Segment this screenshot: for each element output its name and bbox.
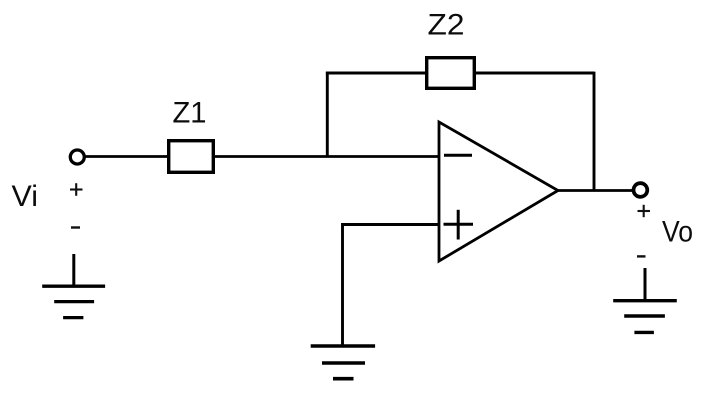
impedance Z1 (169, 141, 214, 173)
op-amp inverting input marker (444, 154, 472, 157)
svg-text:Z1: Z1 (173, 97, 207, 130)
Vo polarity - (637, 255, 646, 257)
ground GND3 (613, 268, 677, 332)
wire Z1 to op-amp inverting input (215, 155, 439, 158)
wire feedback right vertical (593, 72, 596, 191)
Vi polarity - (71, 226, 80, 228)
impedance Z2 (427, 58, 475, 89)
wire non-inverting input to ground (343, 225, 440, 347)
op-amp non-inverting input marker + (444, 210, 474, 240)
ground GND1 (42, 254, 105, 318)
wire feedback top (326, 72, 594, 75)
Vo polarity + (638, 205, 651, 217)
ground GND2 (311, 346, 375, 379)
wire feedback left vertical (326, 72, 329, 157)
svg-text:Z2: Z2 (428, 9, 465, 42)
wire op-amp output to terminal Vo (558, 189, 633, 192)
wire Vi terminal to Z1 (86, 155, 169, 158)
op-amp U1 (439, 122, 558, 261)
terminal Vo (634, 183, 648, 197)
svg-text:Vo: Vo (662, 216, 693, 249)
Vi polarity + (70, 183, 83, 196)
terminal Vi (70, 150, 84, 164)
svg-text:Vi: Vi (12, 180, 39, 213)
